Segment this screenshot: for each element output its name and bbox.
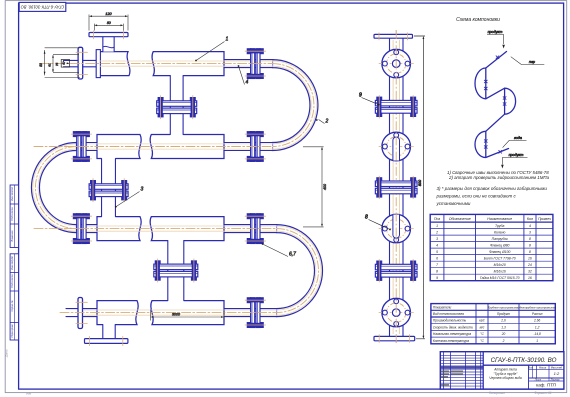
bolt on flange pair side view lower <box>377 261 382 265</box>
pipe segment row1 right outlet <box>224 60 273 68</box>
svg-text:Труба: Труба <box>495 224 504 228</box>
top-left stamp box <box>19 2 66 11</box>
bolt on flange pair row1 right <box>247 49 251 54</box>
svg-text:120: 120 <box>105 12 112 16</box>
bolt holes of disc 4 <box>394 299 399 304</box>
dimension 120 (top flange) <box>89 15 128 31</box>
centerline of bend row1-row2 <box>273 64 314 147</box>
svg-text:9: 9 <box>436 276 438 280</box>
svg-text:3: 3 <box>529 230 531 234</box>
pipe elbow row3-row4 (180° bend right) <box>277 225 323 317</box>
svg-text:Подп.дата: Подп.дата <box>10 207 14 221</box>
svg-text:Изм: Изм <box>26 392 31 396</box>
leader label 4 <box>239 66 245 85</box>
flange pair row3 right <box>251 214 255 244</box>
svg-text:1: 1 <box>226 37 229 43</box>
pipe segment row2 right <box>224 143 273 151</box>
flange plate, outlet branch bottom <box>85 339 128 344</box>
svg-text:1) Сварочные швы выполнены по: 1) Сварочные швы выполнены по ГОСТУ 5486… <box>447 170 549 175</box>
bolt on flange pair connector rows2-3 <box>122 180 127 184</box>
title text <box>528 365 530 389</box>
svg-text:2: 2 <box>435 230 438 234</box>
pipe segment row4 right <box>224 309 277 317</box>
svg-text:Копировал: Копировал <box>489 391 505 395</box>
svg-text:размерами, если они не совпада: размерами, если они не совпадают с <box>436 194 517 199</box>
outer shell row4 right part <box>151 301 224 325</box>
svg-text:5: 5 <box>436 250 438 254</box>
outer shell row3 right part <box>150 217 224 241</box>
svg-text:6: 6 <box>436 256 438 260</box>
svg-text:Инв.№подл: Инв.№подл <box>10 186 14 200</box>
bolt holes of disc 2 <box>394 133 399 138</box>
side view inner pipe lines <box>392 40 394 334</box>
inner pipe end in disc 2 <box>393 137 400 161</box>
svg-text:1:2: 1:2 <box>554 371 560 376</box>
bolt on flange pair row4 right <box>247 298 251 303</box>
svg-text:Кол: Кол <box>527 217 533 221</box>
svg-text:Масса: Масса <box>539 366 547 369</box>
svg-text:8: 8 <box>529 237 531 241</box>
svg-text:Межтрубное пространство: Межтрубное пространство <box>518 305 556 309</box>
inner pipe wall lines (light tan) <box>100 60 273 62</box>
dimension 800 (side view height) <box>414 36 425 339</box>
outer shell row2 left part <box>97 135 141 159</box>
side view vertical centerline <box>395 30 397 344</box>
connector pipe rows2-3 <box>102 157 116 217</box>
circular flange disc 2 (side view) <box>382 132 411 161</box>
svg-text:Патрубок: Патрубок <box>492 237 508 241</box>
svg-text:24: 24 <box>527 263 532 267</box>
dimension 57 box (inlet stub) <box>61 60 69 68</box>
svg-text:2,66: 2,66 <box>533 319 540 323</box>
bolt holes of disc 1 <box>394 50 399 55</box>
flange pair side view upper <box>375 100 417 106</box>
pipe elbow row2-row3 (180° bend left) <box>31 143 76 233</box>
svg-text:Вид теплоносителя: Вид теплоносителя <box>433 312 464 316</box>
svg-text:Показатели: Показатели <box>433 305 452 309</box>
title block header row smudge <box>441 366 483 368</box>
outer shell row4 left part <box>97 301 138 325</box>
bolt on flange pair row3 right <box>247 214 251 219</box>
svg-text:3) * размеры для справок обозн: 3) * размеры для справок обозначены габа… <box>437 186 548 191</box>
svg-text:Болт ГОСТ 7798-70: Болт ГОСТ 7798-70 <box>484 256 516 260</box>
dimension 61 (inlet) <box>53 55 79 73</box>
svg-text:4: 4 <box>529 224 531 228</box>
bolt on flange pair row4 right <box>247 322 251 327</box>
scheme loop3 arc <box>475 131 486 157</box>
flange plate, row4 left end <box>78 298 83 329</box>
pipe segment row1 inlet stub <box>64 60 97 66</box>
svg-text:3: 3 <box>436 237 438 241</box>
scheme label пар <box>511 57 545 65</box>
leader label 1 <box>196 42 225 61</box>
scheme label вода <box>503 140 527 147</box>
svg-text:7: 7 <box>436 263 438 267</box>
weld tick marks on scheme <box>484 80 487 83</box>
scheme label продукт (outlet) <box>502 158 527 165</box>
technical characteristics table <box>431 304 555 344</box>
svg-text:80: 80 <box>39 63 43 67</box>
bolt on flange pair connector rows1-2 <box>158 97 163 101</box>
circular flange disc 4 (side view) <box>382 298 411 327</box>
svg-text:СГАУ-6-ПТК-30190. ВО: СГАУ-6-ПТК-30190. ВО <box>20 4 64 9</box>
svg-text:Скорость движ. жидкости: Скорость движ. жидкости <box>433 325 473 329</box>
svg-text:800: 800 <box>418 179 422 186</box>
svg-text:2) аппарат проверить гидроиспы: 2) аппарат проверить гидроиспытанием 1МП… <box>448 175 550 180</box>
svg-text:4: 4 <box>246 80 249 86</box>
bolt on flange pair side view middle <box>377 178 382 182</box>
bolt on flange pair row3 left <box>73 214 77 219</box>
svg-text:2,6: 2,6 <box>500 319 506 323</box>
svg-text:Начальная температура: Начальная температура <box>433 332 471 336</box>
svg-text:400: 400 <box>323 184 327 190</box>
bolt on flange pair side view middle <box>410 178 415 182</box>
svg-text:Справ.№: Справ.№ <box>10 300 14 311</box>
svg-text:Поз: Поз <box>434 217 441 221</box>
outer shell row2 right part <box>150 135 224 159</box>
bolt on flange pair connector rows3-4 <box>155 261 160 265</box>
circular flange disc 1 (side view) <box>382 49 411 78</box>
scheme loop2 arc <box>505 88 516 114</box>
centerline row1 <box>40 63 273 65</box>
flange pair side view lower <box>375 264 417 270</box>
tee fitting body row1 (inlet tee) <box>97 52 130 76</box>
svg-text:1: 1 <box>536 339 538 343</box>
svg-text:Масштаб: Масштаб <box>551 366 563 369</box>
svg-text:м/с: м/с <box>480 325 485 329</box>
document number <box>483 364 564 366</box>
leader label 2 <box>319 120 325 124</box>
flange pair connector rows1-2 <box>157 101 197 107</box>
tee row1 end cap <box>96 50 100 78</box>
pipe elbow row1-row2 (180° bend right) <box>273 60 318 151</box>
svg-text:9: 9 <box>359 93 362 99</box>
flange pair row3 left <box>77 214 81 244</box>
svg-text:3: 3 <box>141 187 144 193</box>
svg-text:Примеч: Примеч <box>538 217 551 221</box>
svg-text:80: 80 <box>107 21 111 25</box>
scheme label продукт (inlet) <box>487 35 504 45</box>
svg-text:3000: 3000 <box>172 312 180 316</box>
centerline row2 <box>34 146 273 148</box>
leader label 3 <box>116 192 140 207</box>
svg-text:Лист: Лист <box>534 379 541 382</box>
dimension 400 (row spacing) <box>303 147 324 227</box>
svg-text:Формат А1: Формат А1 <box>534 391 552 395</box>
outer shell row3 left part <box>97 217 141 241</box>
svg-text:вода: вода <box>514 136 522 140</box>
left margin box group 1 <box>10 185 18 248</box>
bolt on flange pair row3 left <box>73 238 77 243</box>
outer shell row1 right part <box>152 52 224 76</box>
flange pair connector rows2-3 <box>89 184 128 190</box>
pipe segment row3 right <box>224 225 277 233</box>
bolt holes of disc 3 <box>394 215 399 220</box>
dimension 80 (inlet flange) <box>45 48 80 78</box>
dimension 80 (bolt circle, top flange) <box>94 24 123 31</box>
svg-text:8: 8 <box>436 269 438 273</box>
svg-text:Чертеж общего вида: Чертеж общего вида <box>489 376 522 380</box>
bolt on flange pair row2 left <box>73 131 77 136</box>
pipe segment row2 left <box>77 143 98 151</box>
bolt on flange pair side view upper <box>377 97 382 101</box>
svg-text:6,7: 6,7 <box>289 252 296 258</box>
flange plate, inlet branch top <box>89 33 128 37</box>
side view pipe walls <box>390 37 404 338</box>
break wave on inlet branch <box>103 46 114 47</box>
svg-text:Фланец Ø80: Фланец Ø80 <box>490 243 510 247</box>
svg-text:М16х16: М16х16 <box>494 269 506 273</box>
connector pipe outlet branch (bottom) <box>103 324 115 340</box>
svg-text:Обозначение: Обозначение <box>449 217 471 221</box>
svg-text:8: 8 <box>365 215 368 221</box>
bolt on flange pair connector rows2-3 <box>90 180 95 184</box>
svg-text:Листов: Листов <box>550 379 560 382</box>
svg-text:16: 16 <box>528 256 532 260</box>
centerline row4 <box>60 312 277 314</box>
svg-text:8: 8 <box>529 250 531 254</box>
svg-text:Колено: Колено <box>494 230 505 234</box>
svg-text:продукт: продукт <box>509 153 524 157</box>
svg-text:Схема компоновки: Схема компоновки <box>456 17 500 23</box>
svg-text:установочными: установочными <box>436 201 471 206</box>
svg-text:СГАУ-6-ПТК-30190. ВО: СГАУ-6-ПТК-30190. ВО <box>491 357 557 364</box>
svg-text:Гайка М16 ГОСТ 5915-70: Гайка М16 ГОСТ 5915-70 <box>480 276 520 280</box>
svg-text:1,2: 1,2 <box>535 325 540 329</box>
svg-text:Фланец Ø100: Фланец Ø100 <box>489 250 510 254</box>
svg-text:16: 16 <box>528 276 532 280</box>
parts list table <box>430 214 553 280</box>
leader label 9 <box>362 98 379 105</box>
svg-text:Конечная температура: Конечная температура <box>433 339 469 343</box>
flange pair connector rows3-4 <box>154 264 198 270</box>
svg-text:75: 75 <box>55 63 59 67</box>
svg-text:Инв.№дубл: Инв.№дубл <box>10 256 14 270</box>
svg-text:пар: пар <box>529 60 535 64</box>
title block frame <box>440 352 564 389</box>
side view bottom flange plate <box>374 336 415 340</box>
svg-text:32: 32 <box>528 269 532 273</box>
svg-text:Наименование: Наименование <box>487 217 512 221</box>
pipe segment row4 left stub <box>66 309 97 317</box>
inner pipe end in disc 3 <box>393 215 400 239</box>
svg-text:Производительность: Производительность <box>433 319 467 323</box>
svg-text:2: 2 <box>325 119 329 125</box>
svg-text:-14,8: -14,8 <box>534 332 541 336</box>
flange plate, row1 inlet (left) <box>78 47 83 79</box>
svg-text:Лит: Лит <box>527 366 533 369</box>
svg-text:Рассол: Рассол <box>532 312 543 316</box>
left margin box group 2 <box>10 254 18 340</box>
bolt on flange pair row2 left <box>73 156 77 161</box>
dimension 3000 (row4 length) <box>150 310 224 321</box>
svg-text:Трубное пространство: Трубное пространство <box>488 305 520 309</box>
flange pair row4 right <box>251 298 255 328</box>
svg-text:1: 1 <box>436 224 438 228</box>
side view top flange plate <box>374 34 413 38</box>
flange pair row1 right <box>251 49 255 79</box>
circular flange disc 3 (side view) <box>382 214 411 243</box>
leader label 8 <box>369 220 391 230</box>
svg-text:Перв.прим: Перв.прим <box>10 324 14 337</box>
svg-text:8: 8 <box>529 243 531 247</box>
bolt on flange pair row1 right <box>247 73 251 78</box>
svg-text:М16х20: М16х20 <box>494 263 506 267</box>
connector pipe rows3-4 <box>168 240 184 302</box>
svg-text:2: 2 <box>502 339 505 343</box>
svg-text:продукт: продукт <box>488 30 503 34</box>
scheme flow path <box>486 52 509 158</box>
pipe segment row3 left <box>77 225 98 233</box>
bolt on flange pair side view lower <box>410 261 415 265</box>
svg-text:Подп.дата: Подп.дата <box>10 274 14 288</box>
scheme loop1 arc <box>475 68 486 99</box>
centerline of bend row3-row4 <box>277 229 319 313</box>
bolt on flange pair side view upper <box>410 97 415 101</box>
centerline of bend row2-row3 <box>35 147 76 229</box>
bolt on flange pair row2 right <box>247 156 251 161</box>
svg-text:4: 4 <box>436 243 438 247</box>
svg-text:каф. ПТП: каф. ПТП <box>536 383 556 388</box>
bolt on flange pair connector rows3-4 <box>191 261 196 265</box>
connector pipe rows1-2 <box>170 75 183 136</box>
flange pair row2 right <box>251 132 255 162</box>
bolt on flange pair connector rows1-2 <box>190 97 195 101</box>
svg-text:20: 20 <box>501 332 506 336</box>
leader label 6,7 <box>263 244 289 257</box>
side view centerline over discs <box>395 30 397 344</box>
bolt on flange pair row2 right <box>247 131 251 136</box>
svg-text:Дата: Дата <box>5 349 9 358</box>
svg-text:Продукт: Продукт <box>497 312 511 316</box>
centerline row3 <box>34 228 277 230</box>
svg-text:61: 61 <box>47 63 51 67</box>
connector pipe inlet branch (top) <box>103 37 114 52</box>
lit/mass/scale grid <box>529 368 564 370</box>
flange pair side view middle <box>375 181 417 187</box>
svg-text:кг/с: кг/с <box>479 319 485 323</box>
bolt on flange pair row3 right <box>247 238 251 243</box>
svg-text:1,3: 1,3 <box>501 325 506 329</box>
svg-text:Взам.инв: Взам.инв <box>10 230 14 242</box>
flange pair row2 left <box>77 132 81 162</box>
